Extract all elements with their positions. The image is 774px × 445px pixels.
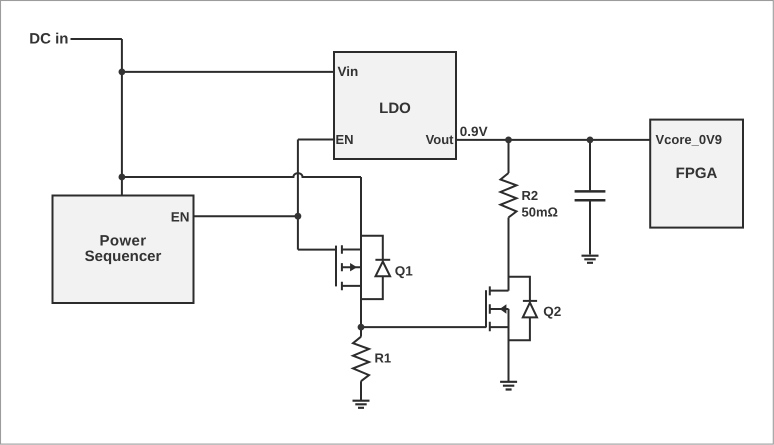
- svg-text:LDO: LDO: [379, 100, 411, 117]
- box Power Sequencer: [53, 196, 194, 304]
- wire DC in vertical to Power Sequencer: [121, 39, 123, 196]
- Q1 body diode branch top: [361, 236, 383, 260]
- wire Q1 drain-source through line: [360, 177, 362, 327]
- wire capacitor bottom lead: [589, 202, 591, 255]
- wire R2 to Q2 drain lead: [508, 218, 510, 291]
- wire R1 top lead: [360, 327, 362, 337]
- Q2 body diode cathode bar: [523, 300, 537, 302]
- svg-text:R1: R1: [375, 351, 392, 366]
- wire drain net horizontal with hop: [122, 173, 361, 177]
- capacitor C1 plates: [575, 191, 606, 200]
- transistor Q1 body arrow: [350, 263, 357, 271]
- resistor R2: [501, 173, 517, 218]
- wire R1 bottom lead: [360, 381, 362, 400]
- wire Vin net to LDO: [122, 71, 334, 73]
- transistor Q1 source stub: [342, 285, 361, 287]
- svg-text:Vin: Vin: [338, 64, 359, 79]
- svg-text:R2: R2: [522, 188, 539, 203]
- ground under capacitor: [582, 256, 599, 263]
- transistor Q2 drain stub: [490, 290, 509, 292]
- transistor Q2 source stub: [490, 326, 509, 328]
- svg-text:Vcore_0V9: Vcore_0V9: [656, 132, 723, 147]
- svg-text:EN: EN: [171, 209, 190, 224]
- transistor Q2 body arrow: [500, 304, 507, 313]
- wire DC in lead: [71, 38, 122, 40]
- node junction DC/Vin: [119, 69, 126, 76]
- wire Vout net LDO to FPGA: [456, 139, 650, 141]
- box FPGA: [650, 120, 743, 228]
- ground under Q2: [500, 382, 517, 390]
- transistor Q1 channel segments: [341, 245, 343, 290]
- node junction Vout/C: [587, 137, 594, 144]
- svg-text:EN: EN: [336, 132, 354, 147]
- Q1 body diode branch bottom: [361, 276, 383, 299]
- svg-text:Q2: Q2: [543, 304, 561, 319]
- svg-text:Sequencer: Sequencer: [85, 248, 162, 265]
- transistor Q2 body stub: [490, 308, 509, 310]
- transistor Q2 gate bar: [485, 290, 487, 327]
- wire R1 node to Q2 gate: [361, 326, 486, 328]
- node junction Vout/R2: [505, 137, 512, 144]
- Q2 body diode branch top: [509, 277, 530, 301]
- transistor Q1 body stub: [342, 266, 361, 268]
- wire EN vertical branch: [297, 140, 299, 250]
- svg-text:50mΩ: 50mΩ: [522, 205, 558, 220]
- box LDO: [334, 52, 456, 159]
- svg-text:DC in: DC in: [29, 30, 68, 47]
- wire R2 top lead: [508, 140, 510, 173]
- node junction DC/drain-net: [119, 174, 126, 181]
- wire capacitor top lead: [589, 140, 591, 190]
- node junction R1/Q2 gate: [358, 324, 365, 331]
- ground under R1: [353, 401, 370, 408]
- Q1 body diode triangle: [376, 262, 391, 277]
- transistor Q1 drain stub: [342, 249, 361, 251]
- wire Q2 source/body line to ground: [508, 309, 510, 382]
- wire EN to LDO EN pin: [298, 139, 334, 141]
- Q1 body diode cathode bar: [375, 259, 390, 261]
- svg-text:Vout: Vout: [426, 132, 455, 147]
- svg-text:FPGA: FPGA: [676, 165, 718, 182]
- wire EN from Power Sequencer: [194, 215, 298, 217]
- resistor R1: [353, 337, 369, 382]
- transistor Q2 channel segments: [489, 286, 491, 331]
- Q2 body diode branch bottom: [509, 317, 530, 340]
- svg-text:Q1: Q1: [395, 263, 414, 278]
- svg-text:0.9V: 0.9V: [460, 124, 488, 139]
- node junction EN: [295, 213, 302, 220]
- svg-text:Power: Power: [99, 232, 146, 249]
- wire EN to Q1 gate: [298, 249, 336, 251]
- transistor Q1 gate bar: [335, 246, 337, 287]
- Q2 body diode triangle: [523, 303, 537, 318]
